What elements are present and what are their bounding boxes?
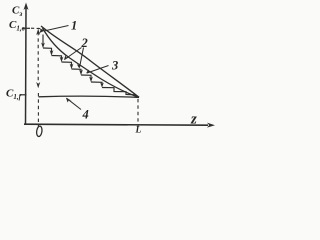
dashed leader from tick to curve start <box>31 27 40 29</box>
line 4 (C_1,f level line) <box>39 96 140 97</box>
leader line for 3 <box>87 66 109 74</box>
tick at C_1,f level <box>20 94 27 96</box>
arrowheads for 2 leaders <box>64 55 70 60</box>
svg-text:4: 4 <box>82 108 89 122</box>
dashed vertical at z=0 (x=38) <box>37 32 39 127</box>
down arrowhead on dashed vertical <box>36 82 40 88</box>
origin label 0 <box>36 126 43 137</box>
x-axis <box>24 124 208 125</box>
staircase (broken line 2) <box>43 35 139 98</box>
y-axis <box>25 7 28 125</box>
svg-text:z: z <box>190 112 197 128</box>
dashed vertical at z=L (x=138) <box>137 99 139 127</box>
up arrowhead on dashed vertical <box>36 29 40 35</box>
curve 1 (upper gentle curve) <box>41 26 139 97</box>
arrowhead at curve start <box>38 27 44 33</box>
x-axis arrowhead <box>207 123 215 128</box>
svg-text:1: 1 <box>71 19 77 33</box>
leader line for 1 <box>44 26 69 32</box>
y-axis arrowhead <box>24 3 29 11</box>
leader lines for 2 <box>65 48 82 60</box>
arrowhead for 4 leader <box>66 98 72 103</box>
tick at C_1,v level <box>23 27 31 29</box>
svg-text:L: L <box>135 126 142 136</box>
arrowhead for 3 leader <box>86 70 92 74</box>
leader line for 4 <box>67 98 82 109</box>
svg-text:3: 3 <box>111 59 118 73</box>
curve 3 (lower steep curve) <box>43 28 140 98</box>
staircase down arrowheads <box>41 43 104 88</box>
